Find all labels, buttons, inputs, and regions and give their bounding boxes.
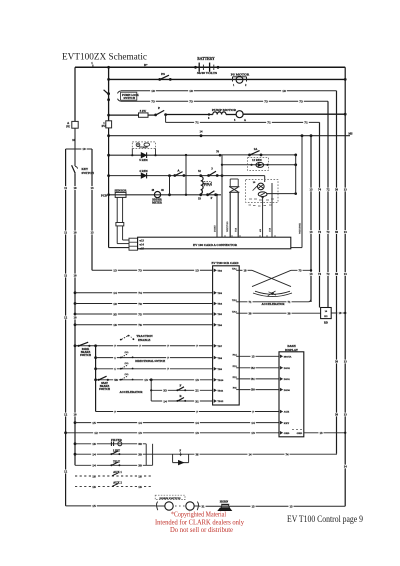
svg-text:(30): (30)	[125, 373, 129, 376]
svg-text:7: 7	[114, 344, 116, 348]
pin TB4 SCR card left	[214, 302, 216, 305]
svg-text:13: 13	[252, 504, 256, 508]
pin TB10 SCR card left	[214, 379, 216, 382]
pin TB8 SCR card left	[214, 356, 216, 359]
switch TILT	[110, 464, 112, 466]
svg-text:METER: METER	[152, 202, 162, 205]
svg-text:7: 7	[196, 344, 198, 348]
svg-text:Do not sell or distribute: Do not sell or distribute	[170, 525, 233, 534]
svg-text:13: 13	[144, 378, 148, 382]
svg-text:16: 16	[113, 323, 117, 327]
svg-text:16: 16	[138, 485, 142, 489]
svg-text:7: 7	[196, 410, 198, 414]
svg-text:A: A	[244, 119, 246, 122]
wire cluster right drop to connector	[271, 183, 273, 237]
svg-text:75: 75	[138, 312, 142, 316]
wire accelerator branch x151.2	[150, 380, 152, 401]
pin TB9 SCR card left	[214, 368, 216, 371]
wire TILT row y465.3	[75, 464, 153, 466]
thermal protector dashes	[249, 199, 274, 200]
wire armature loop inner	[230, 178, 238, 180]
connector pin ticks	[225, 235, 275, 237]
svg-text:GRD: GRD	[284, 432, 290, 435]
svg-text:7: 7	[252, 410, 254, 414]
svg-text:71: 71	[249, 300, 253, 304]
svg-text:72: 72	[327, 230, 331, 234]
svg-text:10: 10	[189, 89, 193, 93]
diode 5 REC	[141, 153, 146, 158]
wire rail WHT/PNK x302	[301, 136, 303, 248]
svg-text:HORN: HORN	[220, 501, 228, 504]
svg-text:35: 35	[113, 312, 117, 316]
junction field bottom / drop 217	[216, 194, 218, 196]
svg-text:13: 13	[310, 230, 314, 234]
svg-text:15: 15	[92, 504, 96, 508]
pin TB12 SCR card left	[214, 400, 216, 403]
svg-text:13: 13	[138, 431, 142, 435]
svg-text:TB2: TB2	[217, 270, 222, 273]
connector EV 100 CARD A CONNECTOR	[138, 237, 291, 249]
svg-text:13: 13	[344, 360, 348, 364]
svg-text:30: 30	[335, 413, 339, 417]
wire PS motor row y79	[109, 78, 346, 80]
svg-text:13: 13	[251, 431, 255, 435]
svg-text:10: 10	[82, 147, 86, 151]
svg-text:14: 14	[163, 399, 167, 403]
svg-text:1: 1	[114, 367, 116, 371]
junction field top / meter link	[168, 174, 171, 177]
svg-text:ENABLE: ENABLE	[138, 338, 150, 342]
svg-text:71: 71	[267, 121, 271, 125]
node tick 1 on battery bus	[92, 65, 94, 68]
svg-text:16: 16	[138, 474, 142, 478]
svg-text:13: 13	[290, 504, 294, 508]
wire 71 pump aux y122.4	[165, 115, 167, 123]
switch directional R dashed	[122, 365, 128, 368]
svg-text:73: 73	[138, 269, 142, 273]
svg-text:73: 73	[299, 268, 303, 272]
pin TB11 SCR card left	[214, 389, 216, 392]
svg-text:2/GRY: 2/GRY	[214, 225, 216, 232]
battery BATTERY 36/48 VOLTS	[194, 66, 197, 69]
wire PCB rail elbow to connector	[109, 247, 129, 249]
svg-text:30: 30	[249, 311, 253, 315]
svg-text:WHT/VIO: WHT/VIO	[227, 221, 229, 232]
svg-text:73: 73	[151, 100, 155, 104]
svg-text:PS MOTOR: PS MOTOR	[231, 72, 250, 76]
capacitor filter bowtie	[229, 187, 239, 192]
wire R contact row y401	[151, 400, 212, 402]
pin MOTA dash display	[280, 355, 282, 358]
svg-text:13: 13	[310, 188, 314, 192]
wire rail 10/30 x336.5	[336, 91, 338, 454]
svg-text:WHT/PNK: WHT/PNK	[299, 223, 301, 234]
rail labels row 5	[334, 413, 339, 417]
svg-text:13: 13	[90, 231, 94, 235]
pin TB2 SCR card left	[214, 269, 216, 272]
wire rail 10 key feed	[74, 128, 76, 149]
thyristor SCR1	[258, 183, 265, 190]
switch LIFT	[110, 453, 112, 455]
svg-text:FILTER: FILTER	[111, 438, 123, 442]
switch directional F dashed	[122, 354, 128, 357]
thyristor module dashed box	[246, 180, 278, 203]
wire F contact row y390.3	[150, 389, 152, 391]
rail label 14	[343, 465, 348, 469]
svg-text:21: 21	[195, 389, 199, 393]
wire pump motor row y115	[148, 114, 156, 116]
svg-text:13: 13	[113, 269, 117, 273]
wire 10 pump lock NO y90.8	[121, 90, 337, 92]
svg-text:TB10: TB10	[217, 379, 224, 382]
rail labels row 3	[308, 272, 313, 276]
svg-text:TB6: TB6	[217, 324, 222, 327]
junction 1M / rail 73A	[310, 134, 313, 137]
svg-text:DIRECTIONAL SWITCH: DIRECTIONAL SWITCH	[135, 359, 166, 363]
svg-text:10: 10	[282, 89, 286, 93]
wire PCB rail x108.6	[108, 67, 110, 121]
svg-text:ACCELERATOR: ACCELERATOR	[119, 390, 143, 394]
svg-text:12: 12	[94, 431, 98, 435]
wire rail 1A drop x295.7	[295, 155, 297, 194]
svg-text:13: 13	[320, 431, 324, 435]
junction accelerator branch	[150, 378, 153, 381]
svg-text:71: 71	[195, 121, 199, 125]
svg-text:30: 30	[138, 442, 142, 446]
svg-text:(50): (50)	[125, 362, 129, 365]
svg-text:13: 13	[310, 272, 314, 276]
svg-text:DIO2: DIO2	[284, 367, 291, 370]
wire rail 73A x311	[310, 136, 312, 302]
wire 16/76 y324.8	[74, 323, 77, 326]
wire horn row y506	[66, 505, 156, 507]
svg-text:14: 14	[92, 453, 96, 457]
pin DIO2 dash display	[280, 367, 282, 370]
svg-text:73: 73	[189, 100, 193, 104]
svg-text:13: 13	[344, 272, 348, 276]
svg-text:30: 30	[138, 464, 142, 468]
rail labels row 4	[334, 360, 339, 364]
wire key switch loop top y149	[66, 148, 92, 150]
svg-text:14: 14	[138, 421, 142, 425]
svg-text:13: 13	[252, 354, 256, 358]
svg-text:B0: B0	[251, 388, 255, 392]
junction field top node 52	[199, 174, 202, 177]
svg-text:16: 16	[92, 474, 96, 478]
wire dash display P11 y389.6	[239, 389, 279, 391]
pin DIO1 dash display	[280, 378, 282, 381]
svg-text:AUX: AUX	[284, 411, 290, 414]
inductor pump motor field coil	[213, 112, 226, 115]
svg-text:P: P	[158, 106, 160, 110]
svg-text:30: 30	[138, 453, 142, 457]
svg-text:71: 71	[304, 121, 308, 125]
switch SEAT BRAKE SWITCH	[98, 379, 100, 381]
junction armature link	[185, 154, 187, 156]
svg-text:19: 19	[339, 311, 343, 315]
wire sensor leg 1 lower	[116, 226, 118, 244]
wire 12REC row y164.8	[221, 155, 223, 237]
svg-text:PUMP MOTOR: PUMP MOTOR	[212, 108, 237, 112]
junction PS row / right rail	[344, 78, 347, 81]
wire ground display right segment	[304, 432, 345, 434]
wire rail 11 left outer	[65, 149, 67, 506]
relay RD module	[321, 308, 332, 319]
svg-text:7: 7	[167, 344, 169, 348]
svg-text:30: 30	[335, 230, 339, 234]
svg-text:14: 14	[113, 291, 117, 295]
svg-text:7: 7	[167, 367, 169, 371]
svg-text:10: 10	[73, 413, 77, 417]
wire RD to rail 13	[331, 312, 345, 314]
svg-text:SENSOR: SENSOR	[114, 188, 127, 192]
svg-text:1: 1	[114, 356, 116, 360]
pin KEY dash display	[280, 421, 282, 424]
svg-text:B+: B+	[144, 63, 148, 67]
pin TB7 SCR card left	[214, 345, 216, 348]
svg-text:B1: B1	[251, 377, 255, 381]
svg-text:TB11: TB11	[217, 390, 223, 393]
svg-text:13: 13	[344, 230, 348, 234]
wire LIFT row y454.2	[74, 453, 77, 456]
svg-text:◄14: ◄14	[139, 244, 145, 247]
svg-text:F: F	[211, 196, 213, 200]
svg-text:19: 19	[244, 268, 248, 272]
svg-text:PCB: PCB	[101, 193, 107, 197]
svg-text:EV T100 Control page 9: EV T100 Control page 9	[287, 514, 363, 524]
svg-text:36: 36	[196, 452, 200, 456]
junction accelerator / rail 73A	[310, 269, 312, 271]
svg-text:5 REC: 5 REC	[139, 158, 148, 162]
svg-text:PS: PS	[161, 72, 165, 76]
svg-text:30: 30	[335, 360, 339, 364]
wire aux feed row y411.5	[96, 411, 279, 413]
wire rail 73 x328	[327, 101, 329, 307]
capacitor filter symbol	[111, 442, 113, 446]
svg-text:F: F	[180, 383, 182, 387]
svg-text:DISPLAY: DISPLAY	[285, 348, 299, 352]
svg-text:ACCELERATOR: ACCELERATOR	[261, 302, 285, 306]
wire TA3 30 y313.2	[239, 312, 320, 314]
junction battery bus / PCB rail	[107, 66, 110, 69]
wire 1M control feed y135.7	[109, 135, 350, 137]
svg-text:MS: MS	[349, 133, 354, 136]
inductor FIELD winding	[201, 176, 203, 193]
svg-text:31: 31	[195, 399, 199, 403]
svg-text:7: 7	[167, 356, 169, 360]
switch HORN SWITCH	[155, 495, 185, 499]
svg-text:10: 10	[151, 89, 155, 93]
svg-text:74: 74	[318, 188, 322, 192]
pin TB5 SCR card left	[214, 313, 216, 316]
svg-text:7: 7	[139, 344, 141, 348]
junction pump row / right rail	[344, 113, 347, 116]
wire 10/70 y303.5	[74, 302, 77, 305]
svg-text:30: 30	[335, 188, 339, 192]
svg-text:KEY: KEY	[284, 422, 290, 425]
rail labels row 1	[308, 188, 313, 192]
junction PCB rail / 1M wire	[107, 134, 110, 137]
svg-text:76: 76	[138, 323, 142, 327]
thermistor sensor lower block	[116, 223, 124, 226]
junction 1A wire / rail	[294, 154, 297, 157]
wire rail 13 right outer x345.2	[344, 67, 346, 506]
junction node 14 on 1M wire	[200, 134, 203, 137]
svg-text:10: 10	[113, 302, 117, 306]
svg-text:RD: RD	[324, 321, 328, 324]
svg-text:FIELD: FIELD	[204, 183, 212, 186]
svg-text:10: 10	[73, 316, 77, 320]
pin TB6 SCR card left	[214, 324, 216, 327]
junction 1M / WHT-PNK rail	[301, 134, 304, 137]
rail labels row 2	[308, 230, 313, 234]
svg-text:TB5: TB5	[217, 313, 222, 316]
wire FILTER row y443.8	[74, 442, 77, 445]
svg-text:13: 13	[344, 413, 348, 417]
wire TA2 71 y301.8	[239, 301, 308, 303]
pin DIO0 dash display	[280, 388, 282, 391]
wire sensor leg 2 lower	[122, 226, 124, 240]
switch KEY SWITCH	[74, 149, 76, 166]
junction field top / drop 222	[221, 174, 224, 177]
svg-text:13: 13	[195, 269, 199, 273]
wire rail 10 below key switch	[74, 173, 76, 465]
svg-text:74: 74	[138, 291, 142, 295]
wire park brake row y345.8	[74, 344, 77, 347]
node 78	[219, 154, 222, 157]
svg-text:72: 72	[327, 188, 331, 192]
svg-text:17 REC: 17 REC	[139, 146, 148, 149]
svg-text:EVT100ZX Schematic: EVT100ZX Schematic	[62, 52, 147, 63]
switch TRACTION ENABLE dashed	[122, 336, 128, 339]
wire dash display P14 y356.3	[239, 355, 279, 357]
junction meter link bottom	[168, 193, 171, 196]
wire directional F row y357.6	[94, 356, 97, 359]
svg-text:16: 16	[92, 485, 96, 489]
svg-text:13: 13	[195, 378, 199, 382]
wire meter link vertical	[169, 176, 171, 195]
svg-text:10: 10	[73, 186, 77, 190]
wire 14/74 y292.8	[74, 291, 77, 294]
junction node 6 on pump row	[208, 113, 210, 115]
wire rail drop from battery bus	[74, 67, 76, 121]
wire key display row y422.6	[74, 421, 77, 424]
svg-text:11: 11	[64, 274, 67, 278]
svg-text:13: 13	[344, 188, 348, 192]
svg-text:10: 10	[73, 274, 77, 278]
svg-text:7: 7	[114, 410, 116, 414]
switch PUMP LOCK SWITCH	[107, 92, 110, 95]
wire drop from node 78 to connector	[221, 174, 223, 237]
svg-text:(50): (50)	[125, 351, 129, 354]
svg-text:33: 33	[163, 389, 167, 393]
svg-text:30: 30	[288, 311, 292, 315]
switch F contactor tip field	[206, 193, 209, 196]
svg-text:TB4: TB4	[217, 303, 222, 306]
wire ground display row y432.8	[64, 431, 67, 434]
wire direction bus x95.6	[95, 346, 97, 412]
junction PCB rail / PS row	[107, 78, 110, 81]
wire field bottom row y194.8	[109, 194, 221, 196]
svg-text:14: 14	[249, 452, 253, 456]
potentiometer ACCELERATOR crossover	[239, 269, 252, 271]
wire 13/73 key output y270.3	[92, 269, 213, 271]
svg-text:TB7: TB7	[217, 345, 222, 348]
svg-text:B2: B2	[251, 366, 255, 370]
svg-text:12: 12	[64, 316, 68, 320]
wire SCR cluster bottom link	[267, 193, 296, 195]
svg-text:14: 14	[92, 464, 96, 468]
wire sensor leg 2	[122, 197, 124, 222]
wire bus filter/lift/tilt	[145, 444, 147, 466]
svg-text:MOTA: MOTA	[284, 356, 292, 359]
wire battery+ bus y67	[75, 66, 345, 68]
pin GRD dash display	[280, 432, 282, 435]
wire armature loop top	[222, 175, 265, 177]
svg-text:HORN SWITCH: HORN SWITCH	[160, 497, 181, 500]
svg-text:11: 11	[64, 231, 67, 235]
svg-text:SWITCH: SWITCH	[124, 97, 136, 100]
wire seat brake row y379.8	[94, 378, 97, 381]
svg-text:14: 14	[251, 421, 255, 425]
svg-text:GRD: GRD	[297, 432, 303, 435]
switch accelerator start dashed	[122, 376, 128, 379]
svg-text:72: 72	[327, 272, 331, 276]
svg-text:10: 10	[73, 231, 77, 235]
wire armature link vertical x186	[185, 155, 187, 195]
diode flywheel loop on lift wire	[172, 454, 174, 462]
svg-text:SWITCH: SWITCH	[99, 388, 111, 391]
svg-text:TB8: TB8	[217, 357, 222, 360]
wire directional R row y368.8	[94, 367, 97, 370]
svg-text:14: 14	[195, 421, 199, 425]
wire sensor leg 1	[116, 197, 118, 222]
suppressor 17 REC dashed module	[132, 142, 155, 149]
motor PUMP MOTOR armature	[236, 111, 243, 118]
svg-text:DIO0: DIO0	[284, 389, 291, 392]
svg-text:TB9: TB9	[217, 368, 222, 371]
svg-text:74: 74	[318, 230, 322, 234]
svg-text:14: 14	[344, 465, 348, 469]
thyristor SCR2	[258, 192, 267, 197]
svg-text:70: 70	[138, 302, 142, 306]
wire rail 71 x319.5	[319, 122, 321, 307]
pin AUX dash display	[280, 410, 282, 413]
wire 1A feed	[220, 154, 296, 156]
wire SCR2 drop to connector	[262, 197, 264, 238]
svg-text:15: 15	[92, 421, 96, 425]
wire cap legs to connector	[229, 192, 231, 237]
svg-text:74: 74	[286, 452, 290, 456]
svg-text:EV 100 CARD A CONNECTOR: EV 100 CARD A CONNECTOR	[193, 243, 238, 247]
wire dash display P13 y367.8	[239, 367, 279, 369]
svg-text:SWITCH: SWITCH	[80, 354, 92, 357]
svg-text:71: 71	[288, 300, 292, 304]
wire 4REC field top row y175.6	[109, 175, 222, 177]
wire 5REC row y155.2	[109, 154, 220, 156]
junction 12REC / rail	[294, 163, 297, 166]
svg-text:12: 12	[64, 413, 68, 417]
svg-text:4 REC: 4 REC	[139, 169, 148, 173]
junction PCB rail / pump row	[107, 114, 110, 117]
svg-text:13: 13	[90, 186, 94, 190]
connector plug GRD/ORG/RED pins	[129, 238, 138, 250]
svg-text:◄13: ◄13	[139, 240, 145, 243]
switch PARK BRAKE SWITCH	[78, 345, 80, 347]
svg-text:12 REC: 12 REC	[252, 158, 262, 162]
svg-text:58: 58	[114, 378, 118, 382]
svg-text:30: 30	[335, 272, 339, 276]
